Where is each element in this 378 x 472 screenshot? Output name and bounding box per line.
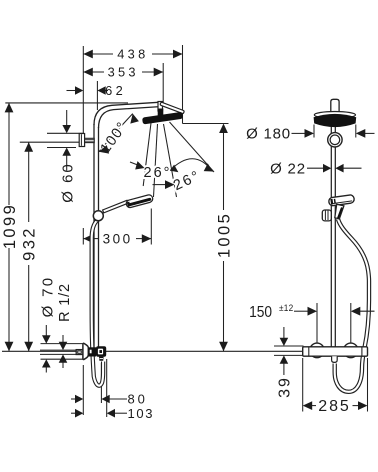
- spray jet lines: [143, 122, 214, 197]
- wire: bottom extension lines 80 and 103: [82, 365, 84, 415]
- arrowhead 103 right (outside): [107, 409, 115, 418]
- svg-text:Ø 22: Ø 22: [270, 160, 306, 177]
- connector piece: [88, 347, 96, 356]
- svg-text:1005: 1005: [215, 212, 233, 258]
- 26deg no.1 leader tail left: [130, 162, 144, 168]
- svg-text:39: 39: [277, 376, 294, 398]
- wire: Ø180 dim line tails: [292, 132, 308, 134]
- svg-text:±12: ±12: [279, 303, 294, 314]
- arrowhead 300 left: [83, 234, 93, 243]
- wire: 39 extension lines: [274, 345, 304, 347]
- wire: Ø60 extension lines: [47, 132, 84, 134]
- arrowhead 285 right: [358, 401, 368, 410]
- overhead shower head position 2 (thick bar, filled): [142, 112, 183, 125]
- arrowhead 103 left (outside): [75, 409, 83, 418]
- hose outlet fitting below valve: [332, 356, 338, 362]
- svg-text:438: 438: [117, 47, 148, 62]
- holder knob (front): [322, 210, 331, 221]
- wire: dim line 438: [83, 53, 113, 55]
- overhead connector (top): [331, 99, 339, 112]
- arrowhead 100deg at pipe: [99, 145, 109, 154]
- 26deg no.1 leader tail right: [153, 184, 168, 186]
- arrowhead Ø60 bottom: [62, 148, 71, 156]
- arrowhead Ø22 right: [335, 164, 343, 173]
- wire: R1/2 stub edge lines: [40, 349, 77, 351]
- wire: Ø70 arrow tails: [45, 325, 47, 337]
- arrowhead 80 left (outside): [75, 395, 83, 404]
- wire: bottom reference centerline: [2, 350, 303, 352]
- arrowhead 80 right (outside): [101, 395, 109, 404]
- hose (left view): [92, 221, 103, 386]
- thermostat valve body: [303, 347, 368, 356]
- wire: dim line 62: [67, 90, 77, 92]
- arrowhead R1/2 top: [59, 342, 68, 350]
- wall bracket neck: [85, 138, 95, 142]
- arrowhead 39 bottom: [280, 355, 289, 363]
- arrowhead Ø70 top: [42, 335, 51, 343]
- arrowhead 285 left: [303, 401, 313, 410]
- svg-text:300: 300: [103, 231, 133, 246]
- svg-text:932: 932: [21, 226, 39, 261]
- svg-text:26°: 26°: [144, 165, 172, 181]
- arrowhead 39 top: [280, 338, 289, 346]
- arrowhead 300 right: [142, 234, 152, 243]
- wire: dim line 1005 vertical + top extension: [183, 123, 229, 125]
- arrowhead Ø180 left: [305, 129, 315, 138]
- wire: 285 dim line: [310, 405, 317, 407]
- arrowhead Ø70 bottom: [42, 359, 51, 367]
- svg-text:1099: 1099: [1, 203, 19, 249]
- overhead shower disk lid: [314, 112, 355, 119]
- arrowhead 150 left: [308, 307, 318, 316]
- thermostat valve connection nuts (circles): [310, 343, 325, 358]
- wire: dim line 103: [71, 412, 78, 414]
- arrowhead 932 bottom: [24, 342, 33, 352]
- svg-text:103: 103: [128, 406, 155, 421]
- wire: extension line 353 right: [162, 63, 164, 104]
- wire: R1/2 arrow tails: [62, 335, 64, 344]
- LEFT DRAWING: side view: [1, 45, 234, 421]
- svg-text:Ø 180: Ø 180: [246, 126, 291, 143]
- wire: extension line wall plane (top dims): [82, 46, 84, 133]
- wire: extension line 62 right: [96, 81, 98, 110]
- hand shower holder circle: [93, 211, 103, 221]
- wire: Ø60 arrow tails: [66, 110, 68, 127]
- arrowhead 353 right: [154, 68, 164, 77]
- arrowhead 62 right (outside): [97, 86, 105, 95]
- wire: 39 arrow tails: [283, 327, 285, 339]
- shower pipe (front): [331, 126, 335, 347]
- arrowhead 62 left (outside): [75, 86, 83, 95]
- svg-text:Ø 70: Ø 70: [39, 276, 56, 318]
- shower pipe with top bend and arm: [94, 102, 160, 347]
- overhead shower disk body (filled): [314, 114, 357, 127]
- svg-text:80: 80: [127, 392, 147, 407]
- wire: dim line 80: [71, 398, 78, 400]
- arrowhead 100deg at arm: [130, 114, 139, 124]
- arrowhead R1/2 bottom: [59, 354, 68, 362]
- arrowhead 26deg no.2 left: [170, 165, 179, 173]
- arrowhead Ø22 left: [323, 164, 331, 173]
- arrowhead 438 left: [83, 50, 93, 59]
- wall bracket flange: [79, 134, 84, 147]
- arrowhead 26deg no.1 left: [135, 161, 144, 169]
- svg-text:R 1/2: R 1/2: [57, 283, 73, 322]
- wire: dim line 353: [83, 71, 104, 73]
- svg-text:Ø 60: Ø 60: [59, 162, 76, 203]
- arrowhead 1005 bottom: [219, 342, 228, 352]
- wire: 150 dim line tails: [294, 310, 310, 312]
- angle arc 26deg no.2: [170, 159, 213, 172]
- escutcheon cone: [83, 343, 88, 359]
- arrowhead 1099 top: [5, 103, 14, 113]
- arrowhead Ø180 right: [356, 129, 366, 138]
- RIGHT DRAWING: front view: [246, 99, 374, 415]
- arrowhead 1099 bottom: [5, 342, 14, 352]
- arrowhead 26deg no.2 right: [204, 163, 213, 171]
- hose (front view): [335, 219, 369, 392]
- wire: bracket-center reference line: [20, 141, 80, 143]
- angle arc 100 degrees: [99, 114, 133, 152]
- ball joint: [328, 133, 342, 147]
- wire: top reference line: [5, 102, 128, 104]
- hand shower handle (front): [335, 204, 344, 219]
- wire: extension line 438 right: [182, 45, 184, 124]
- wire: Ø22 dim line tails: [307, 167, 325, 169]
- arrowhead 150 right: [351, 307, 361, 316]
- svg-text:62: 62: [105, 83, 126, 98]
- elbow foot: [99, 357, 104, 361]
- arrowhead 1005 top: [219, 124, 228, 134]
- overhead shower head position 1 (thin bar): [160, 102, 185, 114]
- arrowhead 26deg no.1 right: [165, 180, 175, 189]
- arrowhead 438 right: [173, 50, 183, 59]
- hand shower handle (left view): [103, 200, 129, 213]
- arrowhead 353 left: [83, 68, 93, 77]
- wire: Ø180 extension lines: [313, 125, 315, 138]
- svg-text:285: 285: [318, 398, 350, 415]
- svg-text:353: 353: [108, 65, 139, 80]
- arrowhead Ø60 top: [62, 125, 71, 133]
- elbow block: [96, 346, 106, 357]
- wire: dim line 300: [83, 238, 99, 240]
- wire: dim line 932 vertical: [28, 142, 30, 222]
- wire: dim 300 extension lines: [82, 228, 84, 245]
- arrowhead 932 top: [24, 142, 33, 152]
- head joint dark connector: [158, 109, 164, 118]
- head pivot box: [158, 102, 163, 112]
- hand shower head (left view, filled pill): [125, 194, 153, 208]
- wire: Ø70 extension lines: [41, 343, 83, 345]
- svg-text:150: 150: [249, 304, 272, 321]
- wall supply stub (R1/2): [76, 350, 83, 355]
- wire: 285 extension lines: [302, 358, 304, 412]
- wire: dim line 1099 vertical: [8, 103, 10, 205]
- hand shower head (front view pill): [328, 194, 354, 206]
- wire: 150 extension lines: [316, 303, 318, 343]
